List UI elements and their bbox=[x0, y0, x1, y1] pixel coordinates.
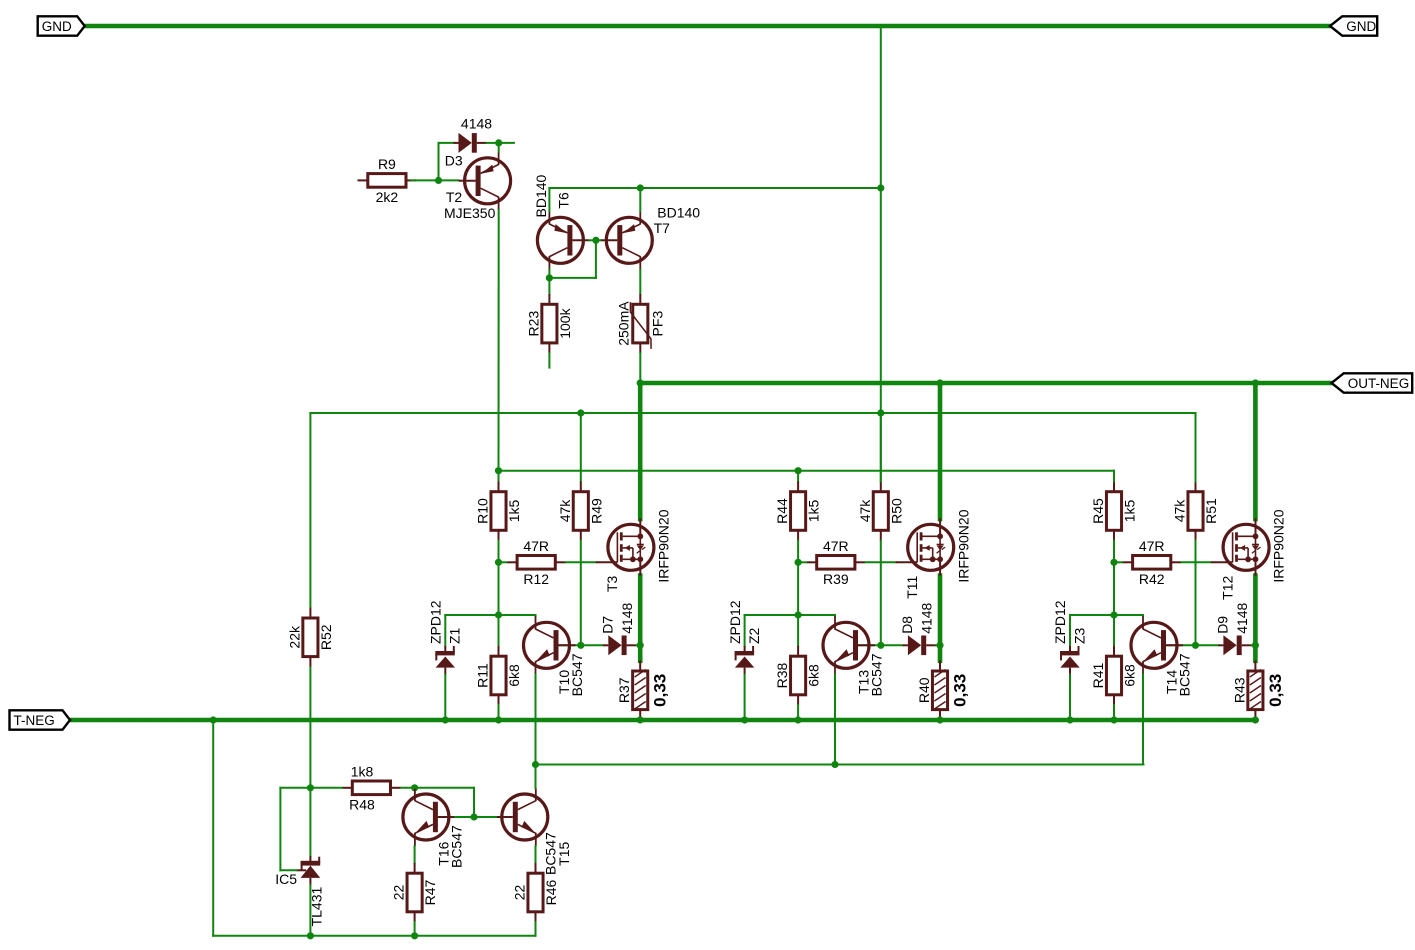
svg-text:BD140: BD140 bbox=[657, 205, 700, 221]
svg-text:IC5: IC5 bbox=[275, 871, 297, 887]
svg-text:4148: 4148 bbox=[461, 116, 492, 132]
svg-text:MJE350: MJE350 bbox=[444, 205, 496, 221]
svg-text:T2: T2 bbox=[446, 189, 463, 205]
svg-text:T12: T12 bbox=[1219, 575, 1235, 599]
svg-text:6k8: 6k8 bbox=[506, 664, 522, 687]
svg-text:BC547: BC547 bbox=[448, 825, 464, 868]
svg-text:1k5: 1k5 bbox=[1122, 500, 1138, 523]
svg-text:4148: 4148 bbox=[1234, 602, 1250, 633]
svg-text:D8: D8 bbox=[899, 616, 915, 634]
svg-text:D7: D7 bbox=[599, 616, 615, 634]
svg-text:47R: 47R bbox=[523, 538, 549, 554]
svg-text:R44: R44 bbox=[774, 498, 790, 524]
svg-text:PF3: PF3 bbox=[649, 311, 665, 337]
svg-text:47R: 47R bbox=[823, 538, 849, 554]
svg-text:0,33: 0,33 bbox=[1266, 674, 1285, 707]
svg-text:R45: R45 bbox=[1090, 498, 1106, 524]
svg-text:250mA: 250mA bbox=[615, 301, 631, 346]
svg-text:47k: 47k bbox=[1172, 499, 1188, 523]
svg-text:R41: R41 bbox=[1090, 662, 1106, 688]
svg-text:T3: T3 bbox=[604, 575, 620, 592]
svg-text:Z2: Z2 bbox=[746, 627, 762, 644]
svg-text:R39: R39 bbox=[823, 571, 849, 587]
svg-text:47k: 47k bbox=[557, 499, 573, 523]
svg-text:R43: R43 bbox=[1231, 677, 1247, 703]
svg-text:BC547: BC547 bbox=[1177, 653, 1193, 696]
svg-text:R37: R37 bbox=[616, 677, 632, 703]
svg-text:R51: R51 bbox=[1203, 498, 1219, 524]
svg-text:OUT-NEG: OUT-NEG bbox=[1348, 376, 1410, 391]
svg-text:R11: R11 bbox=[475, 663, 491, 688]
svg-text:R42: R42 bbox=[1139, 571, 1165, 587]
svg-text:R46: R46 bbox=[543, 879, 559, 905]
svg-text:22: 22 bbox=[391, 885, 407, 901]
svg-text:22: 22 bbox=[512, 885, 528, 901]
svg-text:IRFP90N20: IRFP90N20 bbox=[955, 509, 971, 582]
svg-text:R50: R50 bbox=[888, 498, 904, 524]
svg-text:ZPD12: ZPD12 bbox=[1052, 600, 1068, 644]
svg-text:R52: R52 bbox=[318, 624, 334, 650]
svg-text:R38: R38 bbox=[774, 662, 790, 688]
svg-text:D9: D9 bbox=[1215, 616, 1231, 634]
svg-text:0,33: 0,33 bbox=[951, 674, 970, 707]
svg-text:ZPD12: ZPD12 bbox=[428, 600, 444, 644]
svg-text:R10: R10 bbox=[475, 498, 491, 524]
svg-text:T6: T6 bbox=[556, 192, 572, 209]
svg-text:BD140: BD140 bbox=[533, 174, 549, 217]
svg-text:1k5: 1k5 bbox=[506, 500, 522, 523]
svg-text:R23: R23 bbox=[525, 311, 541, 337]
svg-text:R47: R47 bbox=[422, 879, 438, 905]
svg-text:4148: 4148 bbox=[619, 602, 635, 633]
svg-text:T7: T7 bbox=[654, 220, 671, 236]
svg-text:IRFP90N20: IRFP90N20 bbox=[656, 509, 672, 582]
svg-text:47k: 47k bbox=[857, 499, 873, 523]
svg-text:R9: R9 bbox=[378, 156, 396, 172]
svg-text:6k8: 6k8 bbox=[1122, 664, 1138, 687]
svg-text:6k8: 6k8 bbox=[806, 664, 822, 687]
svg-text:R48: R48 bbox=[349, 796, 375, 812]
svg-text:R49: R49 bbox=[588, 498, 604, 524]
svg-text:Z1: Z1 bbox=[447, 627, 463, 644]
svg-text:GND: GND bbox=[1346, 19, 1376, 34]
svg-text:0,33: 0,33 bbox=[651, 674, 670, 707]
svg-text:4148: 4148 bbox=[919, 602, 935, 633]
svg-text:BC547: BC547 bbox=[869, 653, 885, 696]
svg-text:IRFP90N20: IRFP90N20 bbox=[1271, 509, 1287, 582]
svg-text:2k2: 2k2 bbox=[376, 189, 399, 205]
svg-text:BC547: BC547 bbox=[569, 653, 585, 696]
svg-text:47R: 47R bbox=[1139, 538, 1165, 554]
svg-text:GND: GND bbox=[42, 19, 72, 34]
svg-text:T11: T11 bbox=[904, 575, 920, 598]
svg-text:T15: T15 bbox=[556, 841, 572, 865]
svg-text:D3: D3 bbox=[445, 153, 463, 169]
svg-text:100k: 100k bbox=[557, 307, 573, 338]
svg-text:ZPD12: ZPD12 bbox=[727, 600, 743, 644]
svg-text:Z3: Z3 bbox=[1071, 627, 1087, 644]
svg-text:1k5: 1k5 bbox=[806, 500, 822, 523]
svg-text:R40: R40 bbox=[916, 677, 932, 703]
svg-text:R12: R12 bbox=[523, 571, 549, 587]
svg-text:22k: 22k bbox=[286, 625, 302, 649]
svg-text:T-NEG: T-NEG bbox=[14, 713, 55, 728]
svg-text:1k8: 1k8 bbox=[351, 763, 374, 779]
